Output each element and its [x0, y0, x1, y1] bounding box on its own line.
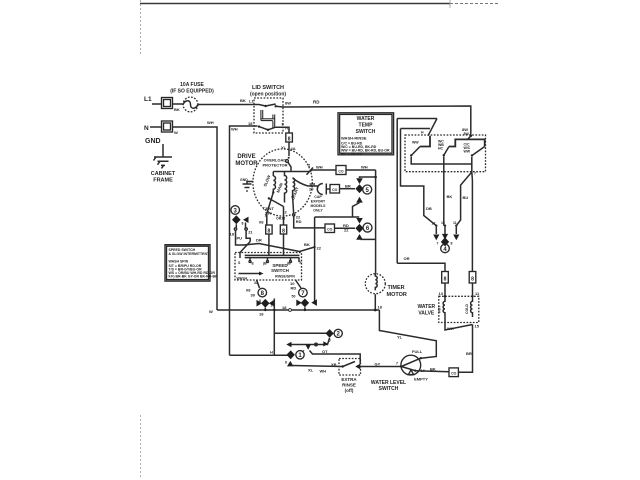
- wire 21 down: [246, 223, 251, 242]
- wire N WH to right and down: [173, 127, 218, 310]
- circled 7: [299, 288, 308, 297]
- svg-text:8: 8: [282, 229, 285, 235]
- wire lid 18 down left column: [230, 126, 258, 355]
- wire connector 6 to timer feed: [361, 238, 376, 240]
- svg-text:18: 18: [230, 232, 235, 237]
- svg-text:N: N: [144, 125, 149, 132]
- lid switch S1 dashed box: [254, 98, 283, 133]
- wire OR feed to left valve: [397, 263, 445, 271]
- svg-text:FULL: FULL: [412, 349, 423, 354]
- wire H to circled 1: [230, 354, 288, 356]
- svg-text:DRIVE: DRIVE: [237, 154, 255, 160]
- page top border dashed segment: [450, 3, 498, 5]
- speed switch terminals: [249, 261, 251, 263]
- wire speed switch to circled 8: [257, 280, 260, 288]
- page top border line: [140, 3, 450, 5]
- timer motor dashed circle: [365, 274, 385, 294]
- connector diamond 7: [301, 299, 309, 308]
- svg-text:CO: CO: [338, 170, 344, 174]
- svg-text:WH: WH: [231, 127, 238, 132]
- svg-text:WASH-RINSE: WASH-RINSE: [341, 136, 367, 141]
- motor terminal 22: [293, 214, 295, 216]
- svg-text:TEMP: TEMP: [359, 123, 374, 129]
- connector diamond 5: [355, 184, 363, 193]
- circled 4: [441, 244, 450, 253]
- svg-text:BK: BK: [240, 98, 246, 103]
- connector box CO bottom: [449, 368, 458, 377]
- wire fuse to lid switch: [198, 104, 254, 106]
- rail corner down to water level switch: [379, 310, 436, 358]
- wire motor to capacitor: [308, 185, 319, 187]
- svg-text:WASH: WASH: [237, 277, 248, 281]
- wire motor 22 to CO box row 6: [294, 216, 325, 228]
- svg-text:RINSE: RINSE: [342, 383, 356, 388]
- svg-text:YL: YL: [397, 335, 403, 340]
- wire BK temp switch to terminal 10: [443, 164, 445, 226]
- valve fuse boxes: [445, 283, 473, 296]
- motor ground stub: [243, 182, 254, 192]
- svg-text:OT: OT: [322, 349, 328, 354]
- connector diamond 4: [441, 237, 449, 246]
- winding SLOW: [273, 174, 275, 192]
- wire XL WH to extra rinse: [292, 366, 343, 367]
- wire right vertical to timer: [375, 170, 377, 273]
- connector 1 triangle lower: [287, 361, 294, 367]
- svg-text:WH: WH: [361, 165, 368, 170]
- svg-text:08: 08: [259, 220, 264, 225]
- wire DB to terminal 12: [401, 129, 437, 226]
- drive motor M1 dashed outline: [253, 149, 312, 216]
- speed switch arrow: [239, 273, 260, 275]
- wire diamond 7 to rail: [304, 307, 306, 310]
- svg-text:CO: CO: [451, 371, 457, 375]
- wire speed switch to junction: [300, 247, 315, 252]
- wire speed switch to circled 7: [296, 280, 302, 288]
- wire GY to water level switch: [360, 366, 401, 368]
- circled 4 terminals: [435, 225, 437, 227]
- wire connector 5 row down the left vertical: [315, 217, 360, 301]
- svg-text:DB: DB: [426, 206, 432, 211]
- wire PU down: [236, 224, 245, 245]
- svg-text:BK: BK: [304, 242, 310, 247]
- wire to fuse: [173, 103, 184, 105]
- svg-text:BU: BU: [463, 195, 469, 200]
- svg-text:W: W: [174, 130, 178, 135]
- wire L1 to connector: [152, 103, 161, 105]
- circled 3: [231, 206, 240, 215]
- svg-text:BR: BR: [466, 351, 472, 356]
- ground symbol cabinet: [154, 144, 172, 165]
- wire to circled 2: [274, 332, 326, 334]
- wire N to connector: [150, 126, 161, 128]
- circled 2: [334, 329, 342, 337]
- connector diamond 3: [232, 215, 241, 224]
- svg-text:WASH SPIN: WASH SPIN: [169, 259, 189, 263]
- svg-text:EMPTY: EMPTY: [414, 377, 428, 382]
- svg-text:RD: RD: [291, 286, 297, 291]
- svg-text:L1: L1: [144, 96, 152, 103]
- svg-text:7: 7: [396, 362, 398, 366]
- svg-text:RINSE/SPIN: RINSE/SPIN: [275, 275, 295, 279]
- svg-text:22: 22: [344, 228, 349, 233]
- svg-text:TIMER: TIMER: [388, 285, 405, 291]
- svg-text:8W: 8W: [464, 132, 470, 136]
- svg-text:XB: XB: [331, 362, 337, 367]
- motor exit blade to WH: [307, 168, 314, 175]
- svg-text:& SLOW INTERMITTENT: & SLOW INTERMITTENT: [169, 252, 210, 256]
- svg-text:(B: (B: [263, 262, 267, 266]
- thermal fuse box 8: [286, 133, 293, 142]
- svg-text:15: 15: [475, 324, 480, 329]
- connector box CO 6: [325, 224, 335, 233]
- svg-text:H: H: [270, 350, 273, 355]
- svg-text:WH: WH: [447, 326, 454, 331]
- connector terminal box L1: [162, 98, 173, 109]
- svg-text:8W: 8W: [285, 101, 291, 106]
- svg-text:WW: WW: [464, 150, 471, 154]
- svg-text:COLD: COLD: [465, 304, 469, 314]
- svg-text:BK: BK: [430, 367, 436, 372]
- wire from dot to triangle: [360, 177, 376, 178]
- svg-text:(off): (off): [345, 388, 354, 393]
- svg-text:8: 8: [259, 299, 261, 303]
- wire BU temp switch to terminal 11: [456, 164, 472, 226]
- svg-text:WW: WW: [412, 141, 419, 145]
- page left top tick: [140, 0, 142, 55]
- connector 5 triangle up: [356, 197, 363, 203]
- wire lid switch lower to thermal fuse: [280, 127, 289, 133]
- svg-text:(IF SO EQUIPPED): (IF SO EQUIPPED): [170, 89, 214, 95]
- loop wire H feed: [397, 119, 437, 264]
- diaphragm triangle: [408, 370, 413, 375]
- wire diamond 8 to rail: [264, 308, 266, 310]
- lid switch actuator staircase: [261, 110, 275, 128]
- centrifugal switch: [268, 197, 270, 199]
- connector 6 triangle up: [356, 234, 363, 240]
- wire DR diagonal to speed switch: [244, 244, 300, 252]
- wire empty to CO box: [415, 371, 449, 372]
- winding START: [293, 178, 295, 197]
- svg-text:DR: DR: [256, 238, 262, 243]
- svg-text:EXTRA: EXTRA: [341, 377, 357, 382]
- svg-text:SWITCH: SWITCH: [271, 268, 289, 273]
- valve coil left: [443, 296, 445, 317]
- connector box CO top: [336, 166, 346, 175]
- svg-text:HOT: HOT: [438, 305, 442, 313]
- svg-text:8: 8: [471, 277, 474, 283]
- svg-text:11: 11: [453, 221, 457, 225]
- svg-text:MOTOR: MOTOR: [387, 292, 407, 298]
- svg-text:50: 50: [292, 295, 296, 299]
- connector triangles 4: [433, 235, 439, 241]
- svg-text:CAP: CAP: [314, 195, 322, 199]
- svg-text:8: 8: [288, 137, 291, 143]
- water level switch S4 circle: [401, 355, 421, 375]
- svg-text:(open position): (open position): [250, 92, 286, 98]
- svg-text:GND: GND: [240, 178, 248, 182]
- svg-text:RD: RD: [313, 100, 320, 105]
- connector terminal box N: [162, 121, 173, 132]
- connector diamond 8: [261, 299, 269, 308]
- page left bottom tick: [140, 415, 142, 478]
- svg-text:OR: OR: [404, 256, 410, 261]
- wire CO to right vertical: [346, 169, 376, 171]
- fuse F1 10A (dashed circle with element): [183, 97, 198, 112]
- svg-text:8: 8: [268, 229, 271, 235]
- neutral rail: [217, 309, 379, 311]
- svg-text:SWITCH: SWITCH: [379, 386, 399, 392]
- loop wire WW feed: [401, 128, 431, 130]
- svg-text:BK: BK: [447, 194, 453, 199]
- timer motor coil: [375, 273, 377, 290]
- svg-text:PROTECTOR: PROTECTOR: [262, 163, 287, 168]
- svg-text:7: 7: [437, 242, 439, 246]
- valve coil right: [471, 296, 473, 317]
- wire RD lid switch to water temp switch: [283, 106, 471, 135]
- water temp switch legend box: [338, 113, 394, 155]
- svg-text:WATER: WATER: [417, 304, 435, 310]
- svg-text:WATER: WATER: [357, 116, 375, 122]
- svg-text:BR: BR: [345, 184, 351, 189]
- svg-text:FRAME: FRAME: [153, 178, 173, 184]
- svg-text:13: 13: [439, 291, 444, 296]
- connector 1 triangle upper: [305, 344, 311, 350]
- wire OT to extra rinse: [310, 351, 361, 364]
- connector pair 5: triangle down: [356, 178, 363, 184]
- svg-text:PU: PU: [237, 236, 243, 241]
- connector triangle 3: [243, 217, 249, 223]
- circled 8: [258, 288, 267, 297]
- water temp switch S3 dashed box: [405, 135, 486, 172]
- wire into motor: [288, 142, 290, 156]
- wire timer to rail: [374, 294, 376, 310]
- lid switch upper contact: [254, 105, 266, 107]
- speed switch bus: [245, 255, 300, 257]
- valve bottom wires: [445, 317, 473, 330]
- wire to connector 5: [340, 188, 356, 190]
- svg-text:WH: WH: [207, 120, 214, 125]
- connector triangle 8 left: [257, 300, 263, 307]
- svg-text:H/C = BK-RD: H/C = BK-RD: [341, 152, 363, 156]
- svg-text:8: 8: [285, 361, 287, 365]
- connector diamond 6: [355, 224, 363, 233]
- capacitor C1: [317, 184, 330, 195]
- connector pair 6 triangle down: [356, 218, 363, 224]
- connector arrow into 7: [311, 299, 317, 306]
- motor internal bus: [273, 171, 310, 173]
- svg-text:8: 8: [444, 277, 447, 283]
- svg-text:20: 20: [309, 187, 314, 192]
- svg-text:18: 18: [378, 305, 383, 310]
- svg-text:SWITCH: SWITCH: [356, 129, 376, 135]
- connector triangle 7 left: [296, 300, 302, 307]
- svg-text:XL: XL: [308, 368, 314, 373]
- svg-text:BK: BK: [174, 107, 180, 112]
- svg-text:VALVE: VALVE: [418, 311, 435, 317]
- svg-text:18: 18: [282, 305, 287, 310]
- svg-text:30: 30: [251, 293, 256, 298]
- junction at 247: [314, 246, 316, 248]
- svg-text:WH: WH: [316, 165, 323, 170]
- page top tick: [449, 0, 451, 8]
- wire CO up to valve: [458, 325, 472, 373]
- svg-text:CO: CO: [327, 228, 333, 232]
- svg-text:GY: GY: [375, 362, 381, 367]
- lower connector row: [286, 342, 291, 347]
- motor to speed switch fuse boxes: [267, 192, 274, 225]
- svg-text:EXPORT: EXPORT: [311, 200, 326, 204]
- svg-text:8: 8: [242, 222, 244, 226]
- svg-text:8: 8: [451, 242, 453, 246]
- svg-text:CO: CO: [332, 188, 338, 192]
- winding MAIN: [285, 172, 287, 203]
- connector diamond 2: [326, 329, 334, 338]
- circled 1: [296, 351, 304, 359]
- svg-text:CABINET: CABINET: [151, 171, 176, 177]
- speed switch S2 dashed box: [235, 253, 302, 281]
- junction dot: [374, 176, 377, 179]
- water valve V1 dashed box: [439, 296, 479, 322]
- svg-text:MODELS: MODELS: [311, 204, 327, 208]
- svg-text:HC: HC: [438, 147, 444, 151]
- wire down to connector 6: [353, 203, 360, 217]
- speed switch legend box: [165, 245, 210, 281]
- svg-text:RD: RD: [296, 219, 302, 224]
- svg-text:18: 18: [259, 312, 264, 317]
- valve terminals: [444, 295, 446, 297]
- connector triangle 8 right: [269, 300, 274, 307]
- svg-text:LID SWITCH: LID SWITCH: [252, 85, 284, 91]
- svg-text:ONLY: ONLY: [313, 209, 323, 213]
- wire CO6 to diamond: [335, 227, 356, 229]
- svg-text:MOTOR: MOTOR: [235, 161, 258, 167]
- svg-text:10A FUSE: 10A FUSE: [180, 82, 204, 88]
- svg-text:32: 32: [254, 281, 258, 285]
- extra rinse switch dashed box: [339, 359, 361, 376]
- svg-text:22: 22: [317, 246, 322, 251]
- svg-text:W: W: [209, 309, 213, 314]
- circled 5: [363, 185, 372, 194]
- connector box CO cap: [330, 185, 340, 194]
- svg-text:WH: WH: [320, 369, 327, 374]
- circled 6: [363, 223, 372, 232]
- start winding feed: [293, 178, 308, 186]
- svg-text:F.F) BR-BK GY-OR BK-RD-BK: F.F) BR-BK GY-OR BK-RD-BK: [169, 274, 218, 278]
- svg-text:GND: GND: [145, 138, 161, 145]
- svg-text:21: 21: [248, 230, 253, 235]
- circled 2 branch vertical: [273, 299, 275, 356]
- wire right valve feed: [471, 172, 474, 272]
- temp switch internal bus: [411, 157, 472, 165]
- connector diamond 1: [287, 350, 295, 359]
